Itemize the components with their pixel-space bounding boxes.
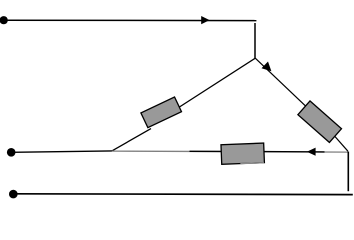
wire: delta bottom side (gray) bbox=[112, 151, 348, 152]
wire: resistor Z2 to right vertex (lower right diagonal) bbox=[331, 132, 348, 151]
arrow on phase A (pointing right) bbox=[201, 16, 209, 24]
wire: resistor Z1 to left vertex (lower left diagonal) bbox=[112, 129, 151, 151]
wire: phase C bottom horizontal bbox=[13, 193, 353, 196]
wire: phase B middle horizontal bbox=[11, 151, 112, 152]
wire: vertical drop to delta apex bbox=[254, 23, 256, 58]
terminal node C (bottom) bbox=[9, 190, 18, 199]
terminal node A (top) bbox=[0, 16, 8, 24]
wire: phase A top horizontal bbox=[4, 19, 257, 21]
wire: black segment left of resistor Z3 bbox=[190, 150, 223, 152]
resistor Z3 (bottom impedance) bbox=[221, 143, 264, 164]
terminal node B (middle) bbox=[7, 148, 16, 157]
arrow on delta bottom side (pointing left) bbox=[307, 148, 316, 156]
wire: apex to resistor Z1 (upper left diagonal) bbox=[174, 58, 255, 110]
resistor Z3 bottom-edge highlight bbox=[240, 162, 264, 165]
wire: right vertex vertical down bbox=[347, 152, 349, 192]
resistor Z1 (left diagonal impedance) bbox=[141, 97, 182, 128]
wire: black segment right of resistor Z3 bbox=[263, 151, 325, 153]
wire: apex to resistor Z2 (upper right diagonal) bbox=[255, 58, 311, 111]
arrow on apex-Z2 wire (pointing down-right) bbox=[262, 62, 272, 72]
resistor Z2 (right diagonal impedance) bbox=[298, 101, 342, 143]
